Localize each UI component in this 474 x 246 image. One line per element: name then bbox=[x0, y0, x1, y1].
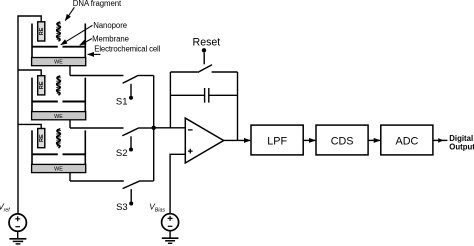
svg-text:RE: RE bbox=[39, 134, 45, 142]
svg-text:Reset: Reset bbox=[193, 36, 221, 48]
svg-text:RE: RE bbox=[39, 27, 45, 35]
svg-text:Electrochemical cell: Electrochemical cell bbox=[94, 44, 160, 53]
svg-text:S2: S2 bbox=[116, 148, 128, 159]
svg-text:LPF: LPF bbox=[267, 135, 287, 147]
svg-text:RE: RE bbox=[39, 81, 45, 89]
svg-text:S1: S1 bbox=[116, 96, 128, 107]
svg-text:S3: S3 bbox=[116, 202, 128, 213]
svg-text:Output: Output bbox=[449, 142, 474, 151]
svg-text:ADC: ADC bbox=[396, 135, 419, 147]
svg-text:Membrane: Membrane bbox=[92, 34, 129, 43]
svg-text:DNA fragment: DNA fragment bbox=[73, 0, 122, 8]
svg-text:WE: WE bbox=[54, 167, 63, 173]
svg-text:WE: WE bbox=[54, 114, 63, 120]
svg-text:WE: WE bbox=[54, 60, 63, 66]
svg-text:CDS: CDS bbox=[331, 135, 354, 147]
svg-text:Nanopore: Nanopore bbox=[93, 21, 127, 30]
